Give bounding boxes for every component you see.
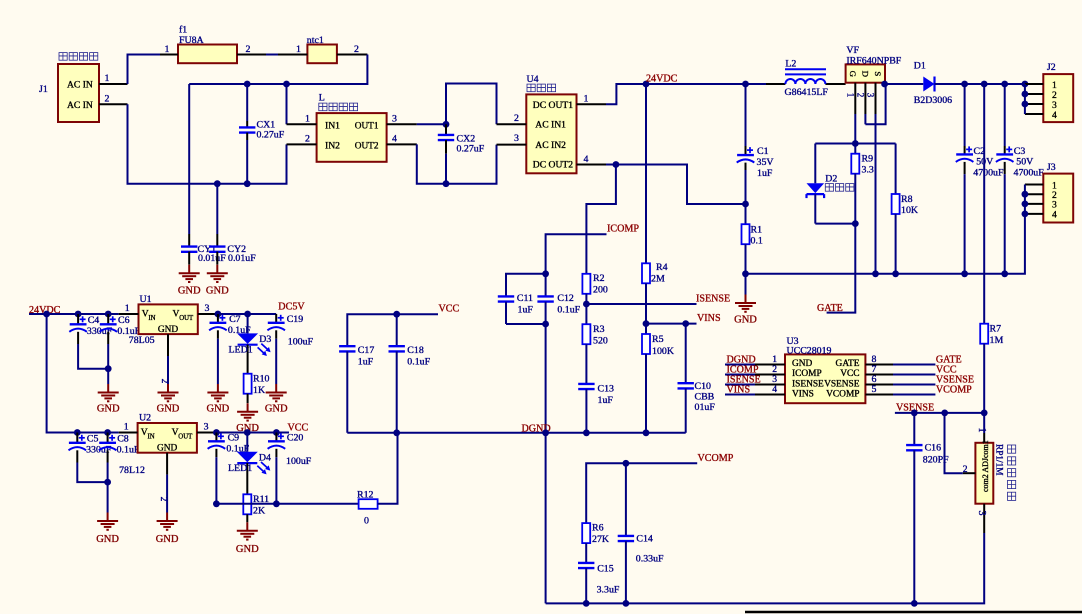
junction [742,81,749,88]
svg-text:1K: 1K [253,385,266,396]
svg-text:DC OUT2: DC OUT2 [533,160,573,171]
svg-text:C17: C17 [358,345,375,356]
svg-text:1M: 1M [990,335,1004,346]
zener diode D2 稳压管 [807,144,854,224]
svg-text:GND: GND [157,404,180,415]
junction [1001,270,1008,277]
svg-text:R1: R1 [751,225,763,236]
svg-text:D2: D2 [825,174,837,185]
ground [96,513,119,546]
svg-text:2: 2 [514,113,519,124]
svg-text:GND: GND [157,444,178,454]
net label VSENSE [936,375,974,386]
junction [583,429,590,436]
junction [43,311,50,318]
svg-text:GND: GND [792,359,813,369]
svg-text:200: 200 [593,285,608,296]
pin ntc1.1 [278,44,307,55]
ground [97,384,120,415]
net label VINS [727,385,751,396]
svg-text:C11: C11 [517,293,533,304]
pin U1.3 [198,303,218,314]
junction [1022,211,1029,218]
pin VF.2 D [855,83,865,125]
junction [742,270,749,277]
svg-text:OUT: OUT [179,315,194,322]
capacitor C14 [618,463,664,603]
wire bottom DGND rail [546,533,985,603]
pin U3.8 [865,354,935,365]
wire over CX2 [446,84,497,125]
svg-text:78L05: 78L05 [129,335,155,346]
bridge rectifier U4 整流桥 [526,74,576,173]
net label 24VDC [646,74,678,85]
svg-text:GND: GND [178,286,201,297]
pin J1.2 [99,94,128,105]
svg-text:2: 2 [354,44,359,55]
junction [623,460,630,467]
junction [213,500,220,507]
junction [643,429,650,436]
svg-text:3.3: 3.3 [862,165,874,176]
pin U3.4 [725,384,785,395]
net label GATE [817,303,843,314]
pin U4.2 [497,113,527,124]
pin ntc1.2 [337,44,368,55]
svg-text:VCOMP: VCOMP [826,389,859,399]
IC U3 UCC28019 [785,336,865,403]
svg-text:GND: GND [158,325,179,335]
wire [545,324,547,603]
svg-text:L2: L2 [785,59,796,70]
potentiometer RP1 1M 细调电位器 [945,413,1004,533]
wire [745,274,747,295]
svg-text:J3: J3 [1047,162,1056,173]
junction [74,429,81,436]
svg-text:1uF: 1uF [518,305,534,316]
svg-text:78L12: 78L12 [119,465,145,476]
svg-text:G: G [848,71,858,78]
svg-text:ntc1: ntc1 [307,35,324,46]
svg-text:VCC: VCC [840,369,859,379]
wire [606,164,616,166]
svg-text:100uF: 100uF [288,337,314,348]
connector J2 [1025,62,1073,122]
capacitor C18 [389,314,431,433]
net label VCC [936,365,957,376]
svg-text:0.1: 0.1 [751,236,763,247]
svg-text:ICOMP: ICOMP [607,224,639,235]
junction [393,311,400,318]
junction [623,600,630,607]
svg-text:AC IN2: AC IN2 [535,140,566,151]
svg-text:C3: C3 [1014,146,1026,157]
svg-text:IN2: IN2 [325,140,340,151]
ground [156,513,179,546]
capacitor C8 [99,433,140,483]
svg-text:GND: GND [236,544,259,555]
junction [1022,91,1029,98]
svg-text:LED1: LED1 [229,345,253,356]
capacitor C12 [537,274,580,324]
net label 24VDC [29,305,61,316]
net label VCOMP [698,453,734,464]
junction [213,429,220,436]
pin J1.1 [99,73,128,84]
pin f1.1 [160,44,178,55]
svg-text:S: S [873,71,883,76]
pin U3.5 [865,384,935,395]
svg-text:C10: C10 [695,381,712,392]
svg-text:1: 1 [976,428,987,433]
resistor R4 [642,84,668,324]
svg-text:3: 3 [514,133,519,144]
wire VINS [646,323,697,325]
svg-text:35V: 35V [757,157,775,168]
svg-text:27K: 27K [592,534,610,545]
transistor VF IRF640NPBF [846,45,902,83]
svg-text:G86415LF: G86415LF [785,87,829,98]
junction [1022,191,1029,198]
wire [586,165,616,274]
svg-text:1uF: 1uF [757,168,773,179]
svg-text:com2 ADJcom1: com2 ADJcom1 [981,440,990,492]
capacitor C11 [498,274,546,324]
svg-text:IN: IN [148,434,155,441]
wire AC line 1 [189,55,367,85]
svg-text:DC OUT1: DC OUT1 [533,100,573,111]
svg-text:0.01uF: 0.01uF [228,253,256,264]
svg-text:R3: R3 [593,324,605,335]
svg-text:J1: J1 [39,84,48,95]
net label ICOMP [727,365,759,376]
svg-text:D3: D3 [259,334,271,345]
junction [105,365,112,372]
svg-text:0.01uF: 0.01uF [198,253,226,264]
wire [606,84,646,104]
svg-text:GND: GND [156,534,179,545]
svg-text:GND: GND [206,286,229,297]
svg-text:24VDC: 24VDC [646,74,678,85]
svg-text:C1: C1 [757,146,769,157]
svg-text:0.1uF: 0.1uF [117,445,140,456]
svg-text:2: 2 [963,464,968,475]
thermistor ntc1 [307,35,337,63]
svg-text:f1: f1 [179,25,187,36]
capacitor CY2 [209,184,256,265]
svg-text:1: 1 [584,94,589,105]
capacitor C13 [578,384,614,433]
pin VF.1 G [845,83,855,144]
svg-text:VINS: VINS [727,385,751,396]
svg-text:VINS: VINS [697,313,721,324]
pin L.1 [287,84,317,125]
resistor R9 [851,144,874,224]
wire [107,482,109,512]
wire [616,165,746,205]
svg-text:D4: D4 [259,453,271,464]
capacitor CY1 [181,234,226,265]
resistor R7 [980,84,1003,413]
svg-text:AC IN: AC IN [67,80,93,91]
capacitor C1 [737,84,775,204]
resistor R8 [892,144,919,274]
wire ISENSE [586,303,696,305]
resistor R12 [357,490,378,527]
svg-text:IRF640NPBF: IRF640NPBF [846,56,901,67]
net label VCOMP [936,385,972,396]
junction [393,429,400,436]
svg-text:0.33uF: 0.33uF [636,554,664,565]
net label VINS [697,313,721,324]
resistor R6 [582,523,590,563]
capacitor C16 [906,413,949,604]
svg-text:C12: C12 [557,293,574,304]
svg-text:3: 3 [392,114,397,125]
pin U4.3 [497,133,527,144]
svg-text:R9: R9 [862,154,874,165]
sheet border [745,611,1082,614]
junction [881,81,888,88]
inductor L2 G86415LF [766,59,846,99]
svg-text:IN1: IN1 [325,120,340,131]
wire [815,223,855,225]
junction [1001,81,1008,88]
net label GATE [936,355,962,366]
pin L.3 [387,114,417,125]
capacitor C7 [209,314,251,384]
net label ICOMP [607,224,639,235]
wire [29,313,119,315]
svg-text:GND: GND [207,404,230,415]
regulator U1 78L05 [129,294,198,346]
inductor L 共模电感 [317,93,387,162]
LED D4 [228,433,271,495]
svg-text:4700uF: 4700uF [1014,168,1045,179]
svg-text:4: 4 [1052,210,1057,221]
capacitor C17 [339,345,374,433]
svg-text:C5: C5 [87,434,99,445]
wire 24VDC rail [646,83,766,85]
svg-text:10K: 10K [901,205,919,216]
svg-text:01uF: 01uF [695,402,716,413]
junction node 24VDC [643,81,650,88]
junction [682,320,689,327]
pin U1.2 [159,334,169,384]
svg-text:R7: R7 [990,324,1002,335]
junction [542,321,549,328]
svg-text:4: 4 [584,154,589,165]
net label ISENSE [727,375,761,386]
svg-text:1: 1 [105,73,110,84]
svg-text:3.3uF: 3.3uF [597,585,620,596]
wire [128,55,161,85]
svg-text:C18: C18 [407,345,424,356]
capacitor C3 [996,84,1044,274]
junction [443,180,450,187]
net label VCC [439,304,460,315]
ground [236,403,259,434]
pin L.4 [387,134,417,145]
junction [613,161,620,168]
svg-text:VCOMP: VCOMP [936,385,972,396]
wire [506,323,546,325]
svg-text:3: 3 [866,93,876,98]
svg-text:C8: C8 [117,434,129,445]
svg-text:4: 4 [772,384,777,395]
svg-text:2: 2 [305,134,310,145]
svg-text:ICOMP: ICOMP [792,369,822,379]
svg-text:1: 1 [165,44,170,55]
svg-text:R8: R8 [901,194,913,205]
junction [104,479,111,486]
capacitor CX2 [438,124,485,183]
svg-text:0: 0 [364,516,369,527]
junction [583,600,590,607]
net label DGND [522,424,551,435]
svg-text:OUT2: OUT2 [355,141,379,151]
junction [273,429,280,436]
junction [1022,101,1029,108]
svg-text:VCOMP: VCOMP [698,453,734,464]
junction [961,81,968,88]
svg-text:C15: C15 [597,564,614,575]
regulator U2 78L12 [119,413,197,477]
junction [244,429,251,436]
net label VSENSE [896,403,934,414]
svg-text:4700uF: 4700uF [973,168,1004,179]
junction [542,429,549,436]
pin U3.2 [725,364,785,375]
junction [244,81,251,88]
resistor R11 [243,494,269,522]
svg-text:C20: C20 [287,433,304,444]
junction [643,320,650,327]
svg-text:D1: D1 [914,61,926,72]
junction [852,220,859,227]
wire [417,123,446,125]
resistor R5 [642,324,675,433]
svg-text:3: 3 [976,511,987,516]
net label VCC [288,423,309,434]
svg-text:R5: R5 [652,334,664,345]
svg-text:R6: R6 [592,523,604,534]
svg-text:2: 2 [105,94,110,105]
svg-text:0.27uF: 0.27uF [257,130,285,141]
pin U3.3 [725,374,785,385]
svg-text:50V: 50V [1016,157,1034,168]
ground [207,384,230,415]
svg-text:AC IN: AC IN [67,100,93,111]
ground [734,295,757,326]
svg-text:1uF: 1uF [358,357,374,368]
wire VCOMP [586,463,697,523]
pin f1.2 [237,44,266,55]
svg-text:IN: IN [148,315,155,322]
wire VSENSE [895,412,984,414]
svg-text:GND: GND [734,315,757,326]
fuse f1 FU8A [178,25,237,64]
net label ISENSE [696,294,730,305]
svg-text:C7: C7 [229,314,241,325]
svg-text:0.1uF: 0.1uF [407,357,430,368]
svg-text:OUT1: OUT1 [355,121,379,131]
svg-text:R4: R4 [656,262,668,273]
ground [236,522,259,555]
svg-text:ISENSE: ISENSE [696,294,730,305]
junction [892,270,899,277]
svg-text:4: 4 [1052,110,1057,121]
junction [981,81,988,88]
svg-text:C9: C9 [228,433,240,444]
wire VCC [216,432,289,434]
wire [107,369,109,384]
junction [872,270,879,277]
junction [981,410,988,417]
wire [417,144,497,183]
svg-text:520: 520 [593,336,608,347]
resistor R1 [742,204,763,274]
svg-text:2K: 2K [253,506,266,517]
junction [742,201,749,208]
svg-text:B2D3006: B2D3006 [914,95,952,106]
svg-text:GND: GND [265,404,288,415]
junction [583,301,590,308]
svg-text:C13: C13 [598,384,615,395]
diode D1 B2D3006 [885,61,965,107]
svg-text:2M: 2M [651,274,665,285]
wire DGND rail [347,432,685,434]
junction [214,180,221,187]
svg-text:LED1: LED1 [228,463,252,474]
junction [273,500,280,507]
junction [542,270,549,277]
pin U3.1 [725,354,785,365]
wire [815,143,895,145]
capacitor C10 [678,324,716,433]
svg-text:DC5V: DC5V [278,302,305,313]
wire [216,503,358,505]
svg-text:D: D [860,71,870,77]
svg-text:1: 1 [845,93,855,98]
svg-text:J2: J2 [1047,62,1056,73]
wire [965,83,1025,85]
wire output rail [746,214,1025,274]
svg-text:GND: GND [96,534,119,545]
svg-text:2: 2 [855,93,865,98]
svg-text:ISENSE: ISENSE [792,379,824,389]
ground [178,265,201,297]
pin U4.4 [577,154,607,165]
capacitor C20 [268,433,312,504]
pin U2.1 [119,422,138,433]
svg-text:U4: U4 [527,74,539,85]
junction [105,311,112,318]
svg-text:C16: C16 [925,443,942,454]
svg-text:0.1uF: 0.1uF [557,305,580,316]
pin U3.6 [865,374,935,385]
LED D3 [229,314,272,374]
capacitor C5 [69,433,112,483]
wire AC line 2 [128,104,287,184]
svg-text:L: L [319,93,325,104]
svg-text:100K: 100K [652,346,675,357]
svg-text:C19: C19 [287,314,304,325]
svg-text:R12: R12 [357,490,374,501]
wire VCC [347,314,438,346]
svg-text:OUT: OUT [178,434,193,441]
resistor R3 [582,304,607,384]
